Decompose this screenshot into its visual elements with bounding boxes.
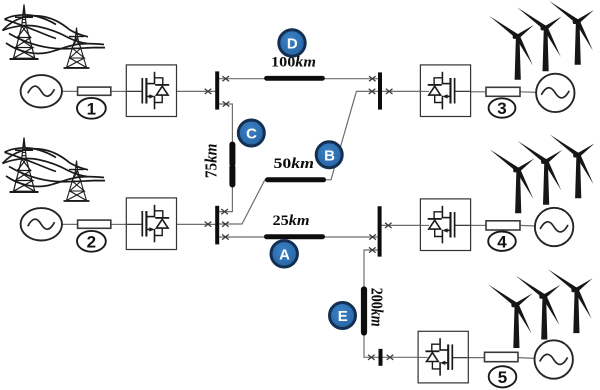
transformer/impedance 4 — [486, 221, 520, 230]
wire cable A to bus 4 — [323, 236, 378, 238]
svg-text:200km: 200km — [367, 288, 386, 327]
wire converter 2 to bus 2 — [177, 223, 216, 225]
svg-text:1: 1 — [87, 100, 96, 119]
terminal label 5 — [489, 366, 517, 387]
node C — [238, 120, 264, 146]
AC source G3 (wind) — [536, 74, 574, 112]
wire converter 3 to transformer 3 — [471, 91, 487, 93]
wire cable C to bus 2 — [219, 185, 233, 212]
node B — [316, 142, 342, 168]
wire bus 4 to converter 4 — [382, 224, 421, 226]
wire bus 5 to converter 5 — [382, 356, 418, 358]
breaker cableA-bus4 — [369, 234, 376, 239]
transformer/impedance 2 — [78, 220, 111, 228]
wire bus 4 to cable E — [364, 250, 378, 289]
transformer/impedance 1 — [78, 87, 111, 95]
svg-text:E: E — [338, 308, 348, 325]
breaker converter1-bus1 — [205, 89, 212, 94]
svg-text:100km: 100km — [271, 55, 316, 71]
terminal label 2 — [77, 231, 106, 252]
wire stub into converter 3 (DC side) — [420, 90, 429, 92]
breaker cableC-bus2 — [221, 209, 228, 214]
wire bus 1 to cable D — [219, 78, 267, 80]
svg-text:B: B — [324, 148, 335, 165]
transmission towers group 1 (AC grid 1) — [3, 5, 106, 69]
wire converter 5 to transformer 5 — [468, 357, 485, 359]
wind farm 1 turbines — [489, 1, 594, 80]
breaker bus5-converter5 — [387, 355, 394, 360]
converter U3 (VSC, mirrored) — [420, 65, 470, 117]
svg-text:25km: 25km — [273, 213, 310, 229]
DC bus 3 — [378, 72, 382, 109]
breaker bus2-cableA — [222, 234, 229, 239]
cable E 200km — [361, 290, 367, 333]
converter U1 (VSC) — [126, 65, 176, 117]
converter U4 (VSC, mirrored) — [420, 199, 470, 251]
terminal label 3 — [489, 98, 516, 118]
wind farm 3 turbines — [488, 269, 593, 348]
breaker bus4-cableE — [369, 247, 376, 252]
node D — [279, 30, 305, 56]
breaker bus1-cableC — [223, 101, 230, 106]
wire transformer 1 to converter 1 — [111, 90, 127, 92]
AC source G2 — [21, 208, 62, 240]
cable B 50km — [268, 177, 324, 182]
wire stub into converter 4 (DC side) — [420, 224, 430, 226]
breaker bus2-cableB — [222, 222, 229, 227]
wire stub into converter 5 (DC side) — [418, 356, 428, 358]
cable D 100km — [267, 76, 323, 81]
AC source G5 (wind) — [535, 340, 573, 378]
wire AC2 to transformer 2 — [60, 223, 78, 225]
svg-text:3: 3 — [497, 99, 506, 118]
DC bus 5 — [379, 349, 383, 366]
svg-text:75km: 75km — [202, 143, 221, 178]
cable A 25km — [267, 234, 323, 239]
svg-text:2: 2 — [87, 233, 96, 252]
breaker cableD-bus3 — [369, 76, 376, 81]
terminal label 1 — [77, 98, 106, 119]
wire bus 1 to cable C — [219, 104, 233, 144]
terminal label 4 — [488, 232, 516, 252]
wire transformer 5 to AC5 — [518, 357, 536, 360]
converter U5 (VSC, mirrored) — [418, 331, 468, 383]
wire bus 3 to converter 3 — [382, 90, 421, 92]
DC bus 2 — [215, 206, 219, 245]
svg-text:5: 5 — [498, 368, 507, 387]
svg-text:D: D — [287, 36, 298, 53]
transformer/impedance 3 — [486, 87, 520, 96]
wind farm 2 turbines — [490, 135, 595, 214]
wire converter 1 to bus 1 — [177, 90, 216, 92]
label 200km — [367, 288, 386, 327]
svg-text:4: 4 — [497, 232, 507, 251]
svg-text:50km: 50km — [274, 156, 315, 172]
svg-text:C: C — [246, 126, 257, 143]
breaker cableB-bus3 — [369, 89, 376, 94]
AC source G1 — [21, 75, 62, 107]
breaker bus1-cableD — [222, 76, 229, 81]
wire transformer 2 to converter 2 — [111, 223, 127, 225]
breaker converter2-bus2 — [205, 222, 212, 227]
wire cable E to bus 5 — [364, 333, 379, 357]
wire transformer 4 to AC4 — [520, 224, 536, 227]
wire AC1 to transformer 1 — [60, 90, 78, 92]
breaker bus3-converter3 — [386, 89, 393, 94]
wire transformer 3 to AC3 — [520, 91, 538, 94]
node E — [330, 303, 356, 329]
breaker bus4-converter4 — [385, 223, 392, 228]
transmission towers group 2 (AC grid 2) — [3, 138, 106, 202]
label 75km — [202, 143, 221, 178]
svg-text:A: A — [279, 247, 290, 264]
cable C 75km (two sections) — [229, 145, 235, 185]
AC source G4 (wind) — [535, 208, 573, 246]
node A — [271, 241, 297, 267]
wire cable D to bus 3 — [323, 78, 379, 80]
wire cable B to bus 3 — [324, 91, 379, 179]
DC bus 1 — [215, 71, 219, 109]
converter U2 (VSC) — [126, 198, 176, 250]
DC bus 4 — [378, 206, 382, 256]
transformer/impedance 5 — [485, 352, 519, 361]
wire converter 4 to transformer 4 — [471, 224, 487, 226]
breaker cableE-bus5 — [368, 355, 375, 360]
wire bus 2 to cable A — [219, 236, 267, 238]
wire bus 2 to cable B — [219, 180, 268, 224]
